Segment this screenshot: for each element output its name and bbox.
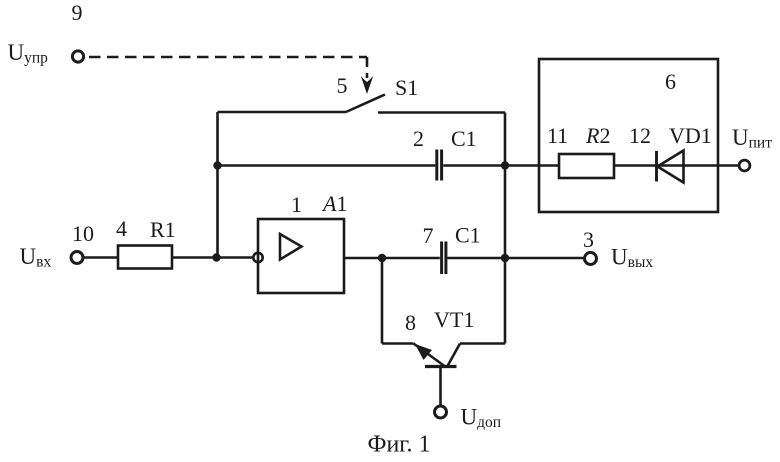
svg-text:4: 4	[116, 216, 127, 241]
svg-text:9: 9	[72, 0, 83, 25]
wire: op-amp output to capacitor C1(7)	[344, 257, 440, 260]
svg-text:Uвх: Uвх	[20, 244, 52, 271]
switch S1 blade	[346, 95, 385, 113]
wire: upper bus from capacitor to junction	[443, 164, 505, 167]
block 6 box	[539, 59, 718, 212]
svg-text:8: 8	[405, 310, 416, 335]
svg-text:A1: A1	[321, 191, 347, 216]
resistor R1	[118, 246, 172, 269]
wire: capacitor C1(7) to output junction	[447, 257, 505, 260]
svg-text:10: 10	[72, 221, 94, 246]
svg-text:5: 5	[337, 73, 348, 98]
wire: transistor emitter horizontal lead	[382, 342, 414, 345]
terminal Udop	[435, 406, 447, 418]
op-amp A1 triangle symbol	[280, 234, 302, 260]
svg-text:Uвых: Uвых	[611, 245, 653, 272]
wire: resistor R1 to op-amp input	[172, 256, 254, 259]
wire: left vertical from output node down to transistor emitter	[381, 258, 384, 344]
svg-text:Uдоп: Uдоп	[461, 405, 502, 432]
terminal 10 (Uvx)	[71, 252, 83, 264]
junction node: op-amp output	[378, 254, 386, 262]
svg-text:C1: C1	[451, 126, 477, 151]
wire: upper bus left of capacitor C1(2)	[218, 164, 436, 167]
transistor VT1 base bar	[425, 365, 457, 368]
capacitor C1 (2) plates	[435, 150, 438, 181]
wire: resistor R2 to diode VD1	[614, 164, 739, 167]
junction node: feedback top-left	[213, 161, 221, 169]
wire: switch left lead	[218, 111, 347, 114]
wire: right vertical wire from switch down to transistor collector	[504, 113, 507, 344]
svg-text:Фиг. 1: Фиг. 1	[368, 432, 431, 458]
transistor VT1 emitter arrow	[415, 344, 432, 360]
svg-text:Uупр: Uупр	[8, 40, 49, 67]
svg-text:Uпит: Uпит	[732, 125, 772, 152]
svg-text:1: 1	[291, 192, 302, 217]
svg-text:6: 6	[665, 69, 676, 94]
svg-text:R2: R2	[585, 123, 610, 148]
wire: transistor base lead down to terminal Udop	[439, 367, 442, 407]
svg-text:VD1: VD1	[669, 123, 712, 148]
wire: input terminal to resistor R1	[84, 256, 119, 259]
capacitor C1 (7) plates	[440, 242, 443, 275]
transistor VT1 collector diagonal	[448, 344, 461, 367]
svg-text:C1: C1	[455, 223, 481, 248]
wire: output junction to terminal 3	[505, 257, 584, 260]
wire: switch right fixed contact lead	[378, 111, 505, 114]
transistor VT1 emitter diagonal	[414, 344, 445, 367]
wire: dashed control line vertical drop to switch S1	[366, 57, 369, 78]
terminal Upit	[739, 160, 750, 171]
op-amp A1 input inversion bubble	[253, 253, 262, 262]
svg-text:S1: S1	[395, 75, 418, 100]
wire: transistor collector horizontal lead	[460, 342, 505, 345]
svg-text:11: 11	[547, 123, 568, 148]
terminal 3 (Uvyx)	[585, 253, 597, 265]
junction node: bus right of C1(2)	[501, 161, 509, 169]
diode VD1 triangle	[658, 151, 684, 183]
diode VD1 cathode bar	[655, 151, 658, 182]
svg-text:VT1: VT1	[434, 307, 474, 332]
junction node: op-amp input	[212, 253, 220, 261]
resistor R2	[559, 154, 614, 178]
wire: left vertical feedback wire	[216, 112, 219, 258]
terminal 9 (Uupr)	[72, 51, 83, 62]
svg-text:2: 2	[413, 126, 424, 151]
wire: bus into block 6 to resistor R2	[505, 164, 559, 167]
svg-text:12: 12	[629, 123, 651, 148]
wire: dashed control line horizontal from terminal 9 to switch	[89, 56, 367, 59]
arrowhead pointing down at switch S1	[361, 76, 373, 94]
op-amp A1 box	[258, 219, 344, 293]
junction node: output bus	[501, 254, 509, 262]
svg-text:R1: R1	[150, 217, 176, 242]
svg-text:3: 3	[583, 227, 594, 252]
svg-text:7: 7	[423, 223, 434, 248]
